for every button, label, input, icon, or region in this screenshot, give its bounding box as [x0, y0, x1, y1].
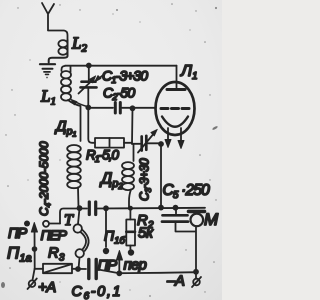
svg-text:R1-5,0: R1-5,0: [86, 148, 120, 165]
junction bus / Dr1 / jack: [77, 205, 83, 211]
junction grid wire / Dr2 branch: [130, 105, 136, 111]
ground: [40, 64, 55, 74]
svg-text:5к: 5к: [138, 225, 154, 242]
svg-text:С3-3÷30: С3-3÷30: [138, 158, 154, 201]
svg-text:М: М: [204, 210, 219, 229]
junction on tank top wire (C1 branch): [86, 63, 92, 69]
coil L2: [49, 40, 68, 63]
wire: grid line: [88, 107, 156, 109]
capacitor C3 (trimmer): [132, 129, 161, 152]
switch P1a: wiper arrow: [31, 223, 37, 270]
junction bus / C5 branch: [173, 205, 179, 211]
jack T: contacts: [74, 209, 89, 270]
wire: tank top: [62, 66, 177, 71]
capacitor C1 (trimmer): [79, 66, 97, 108]
wire: C2 node down: [131, 109, 134, 145]
svg-text:+А: +А: [38, 279, 56, 296]
svg-text:С6-0,1: С6-0,1: [72, 284, 123, 300]
svg-text:С1-3÷30: С1-3÷30: [102, 68, 148, 86]
junction rail / P1b wiper: [116, 270, 122, 276]
svg-text:С5 ·250: С5 ·250: [163, 182, 211, 201]
junction rail / jack branch: [75, 266, 81, 272]
tube filament leads with arrows: [165, 128, 184, 149]
antenna: [42, 3, 68, 40]
tube cathode: [162, 117, 188, 127]
contact PR (P1b): [103, 209, 109, 255]
tube grid (dashes): [161, 107, 189, 110]
choke Dr1: [67, 145, 81, 208]
wire: R1 left branch: [88, 107, 95, 143]
switch P1b: wiper arrow: [116, 251, 122, 274]
capacitor C2: [115, 103, 120, 114]
junction rail / M branch: [193, 269, 199, 275]
svg-text:С2-50: С2-50: [103, 85, 135, 103]
junction bus / C3 branch: [158, 205, 164, 211]
choke Dr2: [122, 144, 134, 208]
paper specks: [1, 3, 218, 297]
terminal -A: [192, 277, 201, 287]
contact PER (P1a): [43, 221, 60, 227]
junction bus / P1b PR branch: [103, 205, 109, 211]
wire: C3 node down: [160, 144, 162, 208]
tube Л1: envelope: [156, 82, 195, 135]
capacitor C5: [162, 208, 196, 232]
junction grid node (L1 tap / C1 / R1): [85, 105, 91, 111]
tube anode: [167, 66, 185, 90]
capacitor C4: [89, 202, 95, 215]
svg-text:ПЕР: ПЕР: [41, 227, 68, 243]
contact PR (P1a): [24, 221, 30, 227]
earphone M: [189, 211, 205, 271]
contact PER (P1b): [128, 249, 134, 255]
capacitor C6: [89, 260, 96, 279]
coil L1: [61, 66, 81, 141]
wire: main horizontal bus: [60, 208, 205, 224]
junction C3 right node: [158, 141, 164, 147]
svg-text:ПР: ПР: [8, 226, 28, 242]
junction bus / R2 branch: [128, 206, 133, 211]
resistor R2: [126, 209, 135, 250]
tap wire on L1: [71, 99, 87, 107]
resistor R3: [43, 264, 72, 273]
terminal +A: [28, 269, 37, 289]
svg-text:–А: –А: [166, 273, 185, 290]
resistor R1: [95, 138, 132, 148]
svg-text:пер: пер: [124, 257, 147, 274]
wire: bottom rail: [35, 269, 196, 279]
